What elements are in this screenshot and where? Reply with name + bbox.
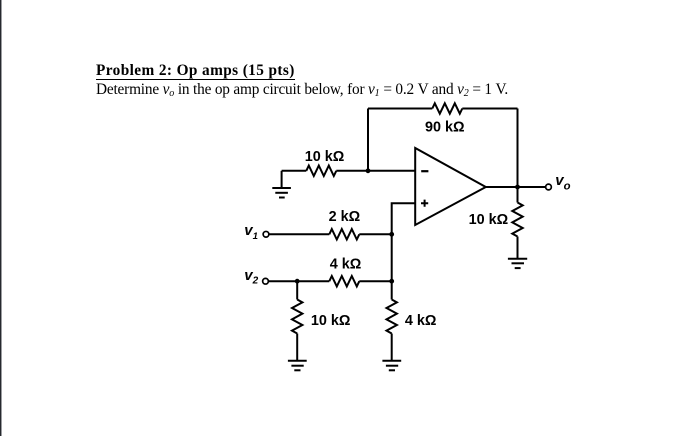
problem statement [96,81,508,99]
wire: summing node down to v2 row [391,234,393,281]
svg-text:v1: v1 [244,222,258,242]
wire: feedback left vertical [367,109,369,171]
svg-text:v2: v2 [244,267,258,287]
op-amp plus sign [421,200,428,207]
op-amp U1 [415,148,486,225]
wire: R5 to node [359,280,391,282]
resistor R5 4kΩ zigzag [329,276,359,286]
svg-text:2 kΩ: 2 kΩ [329,209,361,225]
wire: feedback right vertical [517,109,519,188]
svg-text:90 kΩ: 90 kΩ [425,120,465,136]
wire: R6 to ground [296,334,298,361]
wire: node down to R7 [391,281,393,299]
wire: feedback top left segment [368,108,432,110]
resistor R4 2kΩ zigzag [329,229,359,239]
left page edge bar [0,0,2,436]
svg-text:10 kΩ: 10 kΩ [469,212,509,228]
junction: v2/4k node [389,279,394,284]
resistor R7 4kΩ (vertical) zigzag [387,300,397,334]
wire: output [486,186,546,188]
ground (left input) [272,171,291,198]
wire: R7 to ground [391,334,393,361]
junction: summing node (v1 row) [389,232,394,237]
svg-text:4 kΩ: 4 kΩ [330,257,362,273]
wire: ground stub to R1 [282,170,307,172]
svg-text:vo: vo [555,172,570,193]
wire: output node down to R3 [517,187,519,203]
svg-text:10 kΩ: 10 kΩ [305,149,345,165]
wire: R4 to summing node [359,233,391,235]
terminal v1 [263,231,269,237]
resistor R1 10kΩ zigzag [306,166,336,176]
ground (output load) [508,259,527,268]
ground (under R6) [288,361,307,371]
junction: v2/10k node [295,279,300,284]
wire: R3 to ground [517,237,519,259]
title text [96,62,295,80]
resistor R2 90kΩ zigzag [432,103,462,113]
svg-text:10 kΩ: 10 kΩ [311,313,351,329]
op-amp minus sign [421,170,428,172]
ground (under R7) [382,361,401,371]
junction: inverting node [366,168,371,173]
terminal v2 [263,278,269,284]
terminal vo [546,184,552,190]
resistor R3 10kΩ (output load) zigzag [512,203,522,237]
wire: noninverting input corner [392,203,416,234]
wire: R1 to op-amp inverting input [336,170,415,172]
junction: output node [515,185,520,190]
wire: v2 terminal to junction [268,280,329,282]
wire: v2 node down to R6 [296,281,298,299]
wire: v1 terminal to R4 [269,233,329,235]
resistor R6 10kΩ (vertical) zigzag [292,300,302,334]
svg-text:4 kΩ: 4 kΩ [405,313,437,329]
wire: feedback top right segment [462,108,517,110]
